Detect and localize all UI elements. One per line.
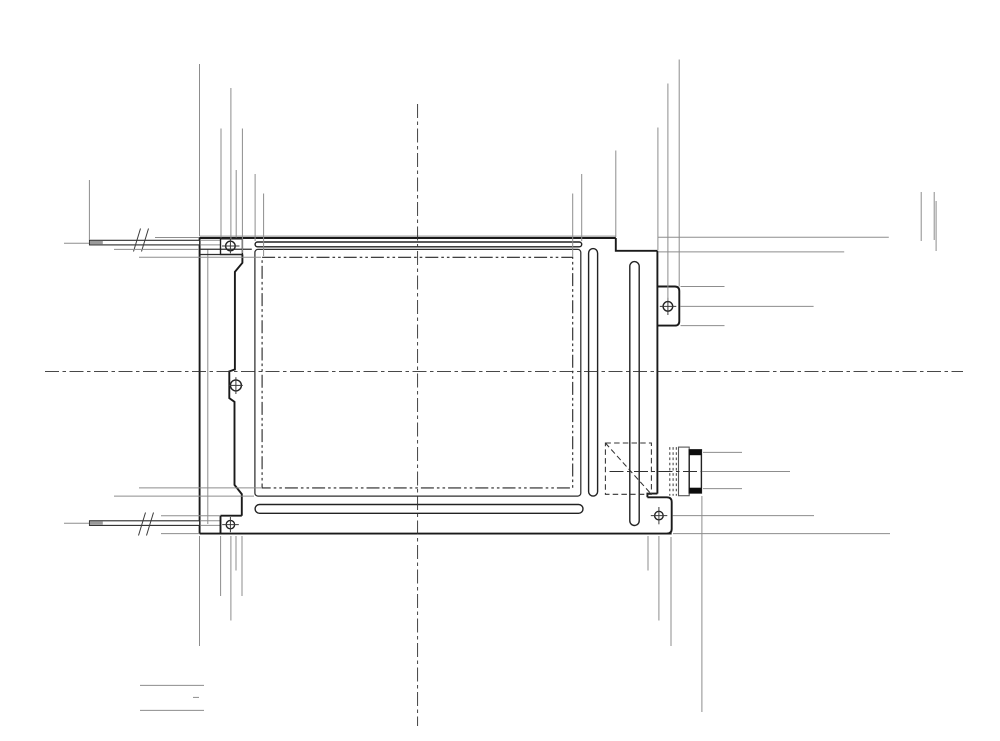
mounting ear top-right <box>657 287 679 326</box>
pin 1 (top-left lead) <box>90 240 200 245</box>
pin2 break marks <box>139 513 154 536</box>
mounting hole bottom-left <box>222 517 239 532</box>
pin 2 (bottom-left lead) <box>90 521 200 526</box>
mounting hole bottom-right <box>651 507 668 524</box>
emboss slot vertical right <box>630 262 639 526</box>
viewing area frame <box>255 249 581 496</box>
bezel inner fold line left <box>207 249 209 524</box>
mounting hole top-left <box>222 239 240 253</box>
extension lines (vertical, bottom dims) <box>200 496 702 712</box>
pin2 row lines inside frame <box>200 520 221 522</box>
CN1 centerline <box>610 471 702 473</box>
CN1 pin 1 (bottom, filled) <box>689 488 701 493</box>
frame top-right step <box>616 238 658 251</box>
emboss slot bottom <box>255 505 583 514</box>
mounting ear bottom-left <box>221 516 242 534</box>
horizontal centerline <box>45 371 963 373</box>
extension lines (horizontal, right dims) <box>658 237 890 533</box>
hidden connector leads (dashed) <box>670 447 677 496</box>
bezel window opening outline <box>229 255 242 516</box>
guide hole mid-left <box>229 377 243 394</box>
pin1 break marks <box>134 229 149 252</box>
vertical centerline <box>417 104 419 726</box>
hidden flex outline (dashed) <box>605 443 651 494</box>
emboss slot top <box>255 242 582 247</box>
bezel frame left edge <box>199 237 201 533</box>
connector CN1 pin strip <box>689 450 701 493</box>
extension lines (horizontal, left dims) <box>64 238 261 534</box>
pin block line top-left <box>200 248 252 250</box>
mounting ear top-left <box>221 239 243 255</box>
extension lines (bottom view / 8MAX) <box>140 685 204 710</box>
extension lines (side view) <box>921 192 936 251</box>
bezel frame right edge <box>656 251 658 494</box>
mounting hole top-right <box>660 298 677 315</box>
connector CN1 body <box>679 447 690 496</box>
bezel frame top edge (double line) <box>200 236 616 238</box>
active area boundary (phantom) <box>262 257 573 488</box>
extension lines (vertical, top dims) <box>89 60 679 301</box>
mounting ear bottom-right <box>647 497 671 533</box>
pin1 row lines inside frame <box>200 239 221 241</box>
bezel flange line top-left <box>200 254 243 256</box>
frame bottom-right step <box>647 494 657 498</box>
CN1 pin 12 (top, filled) <box>689 450 701 455</box>
emboss slot vertical left <box>589 249 598 497</box>
bezel frame bottom edge <box>200 533 672 535</box>
